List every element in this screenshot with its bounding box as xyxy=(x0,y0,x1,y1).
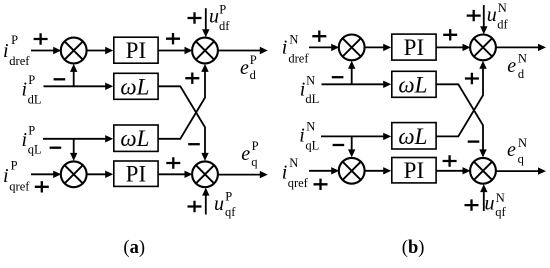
plus sign at PI row4 output xyxy=(166,157,180,168)
summing junction S4 (N q-axis output sum) xyxy=(470,158,496,184)
cross wire wL row3 up into S2 xyxy=(158,71,205,139)
plus sign at S2 bottom input xyxy=(185,73,199,84)
svg-text:qL: qL xyxy=(28,143,42,157)
output wire e_q^N xyxy=(496,170,539,172)
wire u_qf^P up into S4 xyxy=(205,195,207,215)
svg-text:(a): (a) xyxy=(123,238,145,258)
plus sign at u_df^P input xyxy=(188,12,202,23)
plus sign at PI row1 output xyxy=(166,33,180,44)
PI block row4 (N q-axis) xyxy=(392,158,436,183)
plus sign at PI row4 output xyxy=(443,155,457,166)
svg-text:P: P xyxy=(28,123,35,137)
summing junction S3 (N q-axis error) xyxy=(339,158,365,184)
svg-text:i: i xyxy=(282,37,288,59)
output wire e_q^P xyxy=(218,174,261,176)
wire iqref to summing junction S3 xyxy=(31,173,54,175)
svg-text:d: d xyxy=(518,67,525,81)
svg-text:N: N xyxy=(289,156,298,170)
output wire e_d^N xyxy=(496,46,539,48)
output wire e_d^P xyxy=(218,50,261,52)
wire branch idL up into S1 xyxy=(351,68,353,85)
wire S1 to PI block xyxy=(87,50,107,52)
summing junction S4 (P q-axis output sum) xyxy=(192,161,218,187)
wire idL to wL block row2 xyxy=(322,83,385,85)
svg-text:qref: qref xyxy=(9,179,30,193)
summing junction S1 (N d-axis error) xyxy=(339,35,365,61)
svg-text:N: N xyxy=(518,136,527,150)
plus sign at idref input xyxy=(312,31,326,42)
summing junction S3 (P q-axis error) xyxy=(61,161,87,187)
wire branch iqL down into S3 xyxy=(351,136,353,150)
svg-text:qref: qref xyxy=(288,176,309,190)
svg-text:P: P xyxy=(225,190,232,204)
svg-text:u: u xyxy=(487,4,497,26)
wire PI row4 to summing junction S4 xyxy=(436,170,463,172)
wire S1 to PI block xyxy=(365,46,385,48)
wire PI row1 to summing junction S2 xyxy=(158,50,185,52)
minus sign at S4 top input xyxy=(468,140,480,142)
plus sign at idref input xyxy=(34,33,48,44)
wire idref to summing junction S1 xyxy=(31,50,54,52)
wire branch iqL down into S3 xyxy=(73,139,75,154)
cross wire wL row2 down into S4 xyxy=(158,86,205,154)
svg-text:qf: qf xyxy=(495,205,506,219)
plus sign at u_qf^P input xyxy=(188,201,202,212)
svg-text:e: e xyxy=(507,55,516,77)
minus sign at iqL input xyxy=(50,147,62,149)
wire S3 to PI block xyxy=(87,173,107,175)
minus sign at iqL input xyxy=(333,144,345,146)
svg-text:P: P xyxy=(11,159,18,173)
svg-text:i: i xyxy=(299,124,305,146)
svg-text:ωL: ωL xyxy=(120,74,149,99)
svg-text:N: N xyxy=(518,52,527,66)
wire u_df^P down into S2 xyxy=(205,8,207,30)
summing junction S1 (P d-axis error) xyxy=(61,38,87,64)
svg-text:dref: dref xyxy=(288,51,309,65)
svg-text:N: N xyxy=(496,191,505,205)
svg-text:PI: PI xyxy=(404,35,424,60)
svg-text:P: P xyxy=(219,3,226,17)
wL decoupling block row2 (P) xyxy=(114,73,158,99)
svg-text:dL: dL xyxy=(28,92,42,106)
svg-text:i: i xyxy=(282,162,288,184)
cross wire wL row2 down into S4 xyxy=(436,84,483,150)
svg-text:i: i xyxy=(22,129,28,151)
svg-text:qf: qf xyxy=(225,205,236,219)
wire u_qf^N up into S4 xyxy=(483,191,485,211)
minus sign at S4 top input xyxy=(188,143,200,145)
svg-text:P: P xyxy=(28,73,35,87)
svg-text:i: i xyxy=(22,78,28,100)
svg-text:(b): (b) xyxy=(402,238,425,258)
svg-text:df: df xyxy=(497,18,508,32)
wire idref to summing junction S1 xyxy=(309,46,332,48)
svg-text:P: P xyxy=(250,53,257,67)
wire iqL to wL block row3 xyxy=(43,138,106,140)
svg-text:ωL: ωL xyxy=(398,72,427,97)
svg-text:N: N xyxy=(306,74,315,88)
svg-text:q: q xyxy=(251,155,258,169)
svg-text:e: e xyxy=(507,139,516,161)
svg-text:N: N xyxy=(498,1,507,15)
svg-text:qL: qL xyxy=(305,138,319,152)
svg-text:N: N xyxy=(289,33,298,47)
cross wire wL row3 up into S2 xyxy=(436,68,483,136)
svg-text:df: df xyxy=(219,19,230,33)
svg-text:e: e xyxy=(241,143,250,165)
svg-text:dref: dref xyxy=(9,54,30,68)
plus sign at iqref input xyxy=(35,181,49,192)
svg-text:PI: PI xyxy=(126,162,146,187)
svg-text:dL: dL xyxy=(305,92,319,106)
summing junction S2 (P d-axis output sum) xyxy=(192,38,218,64)
plus sign at u_qf^N input xyxy=(465,199,479,210)
plus sign at S2 bottom input xyxy=(465,73,479,84)
wire idL to wL block row2 xyxy=(44,85,107,87)
minus sign at idL input xyxy=(332,76,344,78)
svg-text:PI: PI xyxy=(126,38,146,63)
wire branch idL up into S1 xyxy=(73,71,75,86)
plus sign at u_df^N input xyxy=(467,10,481,21)
svg-text:i: i xyxy=(3,40,9,62)
wire u_df^N down into S2 xyxy=(483,5,485,27)
wL decoupling block row3 (P) xyxy=(114,125,158,151)
svg-text:u: u xyxy=(214,193,224,215)
svg-text:q: q xyxy=(518,152,525,166)
svg-text:P: P xyxy=(252,139,259,153)
wire iqL to wL block row3 xyxy=(321,135,384,137)
summing junction S2 (N d-axis output sum) xyxy=(470,35,496,61)
wL decoupling block row3 (N) xyxy=(392,123,436,149)
PI block row4 (P q-axis) xyxy=(114,161,158,186)
wire iqref to summing junction S3 xyxy=(309,170,332,172)
svg-text:d: d xyxy=(250,68,257,82)
svg-text:ωL: ωL xyxy=(398,124,427,149)
plus sign at iqref input xyxy=(314,179,328,190)
svg-text:u: u xyxy=(209,6,219,28)
svg-text:ωL: ωL xyxy=(120,126,149,151)
minus sign at idL input xyxy=(54,78,66,80)
wire PI row4 to summing junction S4 xyxy=(158,173,185,175)
wire S3 to PI block xyxy=(365,170,385,172)
svg-text:P: P xyxy=(11,33,18,47)
PI block row1 (P d-axis) xyxy=(114,37,158,63)
wL decoupling block row2 (N) xyxy=(392,71,436,97)
plus sign at PI row1 output xyxy=(443,29,457,40)
svg-text:i: i xyxy=(3,165,9,187)
PI block row1 (N d-axis) xyxy=(392,34,436,60)
svg-text:u: u xyxy=(485,193,495,215)
svg-text:N: N xyxy=(306,120,315,134)
wire PI row1 to summing junction S2 xyxy=(436,46,463,48)
svg-text:PI: PI xyxy=(404,158,424,183)
svg-text:e: e xyxy=(240,57,249,79)
